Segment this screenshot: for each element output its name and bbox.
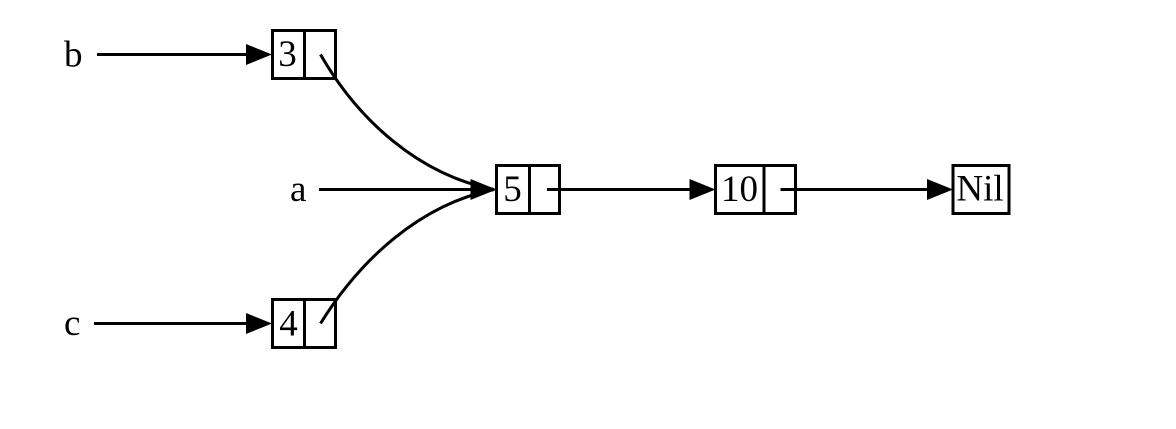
svg-text:c: c bbox=[64, 303, 80, 344]
svg-text:5: 5 bbox=[503, 169, 522, 210]
svg-text:4: 4 bbox=[279, 304, 298, 345]
svg-text:3: 3 bbox=[278, 34, 297, 75]
svg-text:Nil: Nil bbox=[956, 169, 1003, 210]
svg-text:a: a bbox=[290, 169, 306, 210]
svg-text:10: 10 bbox=[721, 169, 758, 210]
svg-text:b: b bbox=[64, 35, 83, 76]
